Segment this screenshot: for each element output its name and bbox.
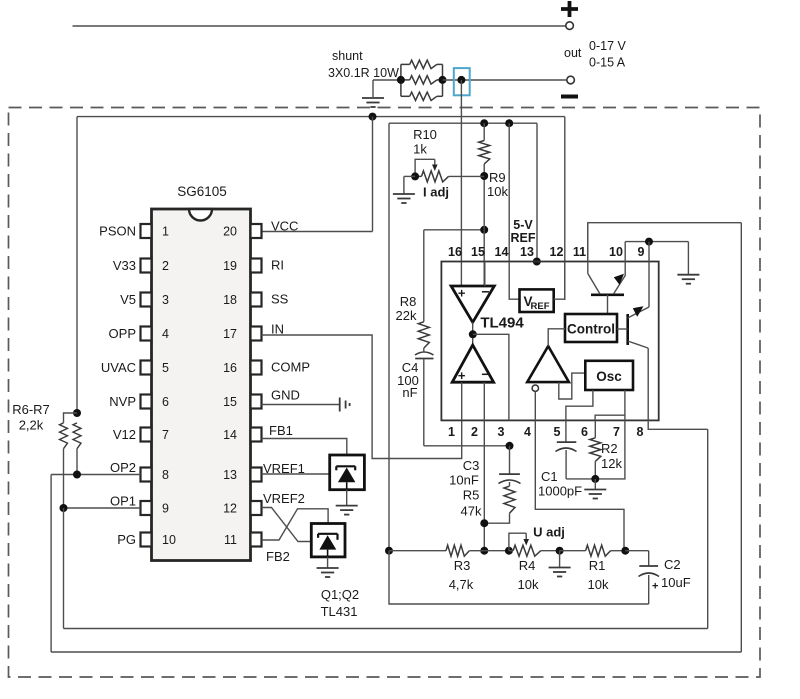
- wire comp2 plus input pin 1: [461, 382, 463, 420]
- svg-text:14: 14: [495, 245, 509, 259]
- wire pin 10 emitter up: [624, 242, 626, 276]
- node R9 bottom: [480, 172, 488, 180]
- wire PWM apex to Control: [548, 329, 565, 346]
- wire VREF1 to TL431: [262, 473, 330, 475]
- svg-text:C2: C2: [664, 557, 681, 572]
- wire OP2 net: [51, 474, 140, 476]
- ground GND pin 15 rotated: [340, 398, 350, 412]
- node shunt right: [439, 76, 447, 84]
- label R5: [463, 488, 480, 503]
- svg-text:8: 8: [637, 425, 644, 439]
- node R7 bottom OP2: [73, 471, 81, 479]
- wire comp1 minus input: [484, 262, 486, 287]
- node VCC tap: [369, 113, 377, 121]
- svg-text:R10: R10: [413, 127, 437, 142]
- ground TL431 Q2: [317, 557, 339, 577]
- svg-text:1: 1: [162, 225, 169, 239]
- node R2 bottom: [591, 475, 599, 483]
- ground oscillator: [584, 479, 606, 499]
- svg-text:shunt: shunt: [332, 49, 363, 63]
- potentiometer R4 U adj: [509, 533, 560, 556]
- wire VCC vertical to pin20: [372, 117, 374, 232]
- svg-text:5: 5: [162, 361, 169, 375]
- label 10k: [487, 184, 508, 199]
- comparator A2 bottom: [452, 345, 493, 383]
- svg-text:12: 12: [223, 502, 237, 516]
- svg-text:12k: 12k: [601, 456, 622, 471]
- svg-text:COMP: COMP: [271, 360, 310, 375]
- svg-text:2,2k: 2,2k: [19, 418, 44, 433]
- wire OP2 loop right up to TL494 pin 11 wire: [740, 223, 742, 652]
- SG6105 right pin labels: [263, 219, 310, 507]
- svg-text:11: 11: [573, 245, 586, 259]
- svg-text:R4: R4: [519, 558, 536, 573]
- capacitor C2: [639, 551, 660, 604]
- wire pin 14 to VREF box: [509, 262, 519, 300]
- op-amp U2 SG6105 body: [152, 209, 251, 561]
- svg-text:16: 16: [223, 361, 237, 375]
- label 5-V: [513, 218, 533, 232]
- block VREF: [520, 289, 554, 312]
- transistor Q2 internal: [617, 306, 649, 420]
- wire pin15 node horizontal: [424, 229, 484, 231]
- wire current sense to TL494 pin 16: [460, 80, 462, 286]
- svg-text:NVP: NVP: [109, 394, 136, 409]
- ground TL494 emitters: [677, 242, 699, 284]
- label U adj: [533, 525, 565, 540]
- label R9: [489, 170, 506, 185]
- svg-text:2: 2: [471, 425, 478, 439]
- svg-text:3: 3: [498, 425, 505, 439]
- wire C2 bottom to 5V vertical: [389, 551, 649, 604]
- svg-text:15: 15: [223, 395, 237, 409]
- wire OP2 loop bottom: [51, 651, 741, 653]
- comparator PWM: [527, 346, 569, 382]
- svg-text:7: 7: [613, 425, 620, 439]
- label C2: [664, 557, 681, 572]
- label R4: [519, 558, 536, 573]
- TL494 top pin numbers: [448, 245, 644, 259]
- wire 5V rail pin14 drop: [508, 123, 510, 261]
- wire 5V REF rail: [389, 122, 537, 124]
- resistor R5: [483, 486, 515, 523]
- svg-text:10k: 10k: [518, 577, 539, 592]
- comparator A1 top: [451, 284, 494, 323]
- wire comparator output to pin 3: [473, 334, 509, 420]
- resistor R10 potentiometer: [415, 171, 484, 182]
- wire OP1 loop left: [63, 508, 65, 629]
- label Q1;Q2: [321, 587, 359, 602]
- wire VREF box to pin 12: [554, 262, 565, 300]
- node pin 9 gnd: [645, 238, 653, 246]
- svg-text:5-V: 5-V: [513, 218, 533, 232]
- svg-text:3: 3: [162, 293, 169, 307]
- label SG6105: [177, 184, 227, 199]
- svg-text:1: 1: [448, 425, 455, 439]
- label FB2 text: [266, 549, 290, 564]
- label TL431: [321, 604, 358, 619]
- node R10 left: [411, 172, 419, 180]
- label R1: [589, 558, 606, 573]
- svg-text:OP1: OP1: [110, 494, 136, 509]
- terminal + output: [566, 22, 574, 30]
- node R6 bottom OP1: [60, 504, 68, 512]
- ground I adj: [393, 194, 415, 203]
- svg-text:VCC: VCC: [271, 219, 298, 234]
- label R10: [413, 127, 437, 142]
- node R6-R7 top: [73, 409, 81, 417]
- svg-text:Control: Control: [567, 322, 615, 337]
- svg-text:17: 17: [223, 327, 237, 341]
- capacitor C4: [415, 348, 434, 446]
- resistor shunt top: [401, 60, 443, 96]
- svg-text:4: 4: [162, 327, 169, 341]
- plus symbol: [561, 1, 578, 17]
- label 0-15 A: [589, 56, 626, 70]
- wire VREF2 crossing: [262, 508, 312, 542]
- label C1: [541, 469, 558, 484]
- svg-text:PG: PG: [117, 532, 136, 547]
- label 10k R1: [588, 577, 609, 592]
- ground R4: [549, 551, 571, 577]
- svg-text:FB2: FB2: [266, 549, 290, 564]
- svg-text:SS: SS: [271, 292, 289, 307]
- svg-text:R8: R8: [400, 294, 417, 309]
- svg-text:13: 13: [520, 245, 534, 259]
- node 5V at TL494 pin 13: [533, 258, 541, 266]
- node pin 3 junction: [506, 442, 514, 450]
- resistor shunt middle: [401, 76, 443, 84]
- svg-text:20: 20: [223, 225, 237, 239]
- svg-text:7: 7: [162, 428, 169, 442]
- current sense marker box: [454, 68, 470, 95]
- svg-text:9: 9: [638, 245, 645, 259]
- svg-text:10nF: 10nF: [449, 473, 479, 488]
- svg-text:22k: 22k: [396, 308, 417, 323]
- SG6105 left pin labels: [99, 224, 136, 548]
- wire R9 junction to TL494 pin 15: [483, 230, 485, 286]
- label 10k R4: [518, 577, 539, 592]
- svg-text:10: 10: [162, 533, 176, 547]
- svg-text:5: 5: [554, 425, 561, 439]
- svg-text:V12: V12: [113, 427, 136, 442]
- resistor R9: [479, 123, 490, 230]
- label out: [564, 46, 582, 60]
- svg-text:47k: 47k: [461, 504, 482, 519]
- node pin2 R3 junction: [480, 547, 488, 555]
- wire FB2 crossing: [262, 509, 329, 540]
- wire GND pin 15: [262, 404, 340, 406]
- svg-text:11: 11: [224, 533, 237, 547]
- svg-text:10: 10: [609, 245, 623, 259]
- wire NVP-node drop: [0, 0, 1, 1]
- svg-text:14: 14: [223, 428, 237, 442]
- wire IN to TL494 pin 1: [262, 335, 462, 459]
- svg-text:U adj: U adj: [533, 525, 565, 540]
- svg-text:C3: C3: [463, 458, 480, 473]
- svg-text:TL494: TL494: [480, 315, 524, 332]
- svg-text:0-15 A: 0-15 A: [589, 56, 626, 70]
- node R4 left: [505, 547, 513, 555]
- svg-text:3X0.1R 10W: 3X0.1R 10W: [328, 66, 399, 80]
- svg-text:I adj: I adj: [423, 185, 449, 200]
- svg-text:+: +: [652, 581, 658, 593]
- label R6-R7: [12, 402, 50, 417]
- svg-text:9: 9: [162, 502, 169, 516]
- wire OP1 loop right up to TL494 pin 8 wire: [707, 429, 709, 628]
- label 2,2k: [19, 418, 44, 433]
- svg-text:IN: IN: [271, 322, 284, 337]
- svg-text:19: 19: [223, 259, 237, 273]
- label 4,7k: [449, 577, 474, 592]
- label 12k: [601, 456, 622, 471]
- node R5 bottom pin2: [480, 519, 488, 527]
- wire 5V rail to TL494 pin 13: [536, 123, 538, 261]
- svg-text:FB1: FB1: [269, 423, 293, 438]
- node 5V rail to pin 14: [505, 119, 513, 127]
- label 1k: [413, 142, 427, 157]
- ground shunt: [362, 80, 384, 107]
- svg-text:TL431: TL431: [321, 604, 358, 619]
- svg-text:10k: 10k: [487, 184, 508, 199]
- label nF: [402, 385, 417, 400]
- label TL494: [480, 315, 524, 332]
- wire PWM input to Osc: [559, 373, 586, 399]
- node R4 right: [556, 547, 564, 555]
- svg-text:nF: nF: [402, 385, 417, 400]
- svg-text:OPP: OPP: [109, 326, 136, 341]
- diode U4 TL431 Q2: [311, 524, 345, 557]
- svg-text:1000pF: 1000pF: [538, 484, 582, 499]
- node 5V rail to R9: [480, 119, 488, 127]
- label shunt: [332, 49, 363, 63]
- label R3: [454, 558, 471, 573]
- svg-text:16: 16: [448, 245, 462, 259]
- wire R1 to C2: [625, 550, 648, 552]
- wire pin 8 external: [648, 420, 708, 429]
- svg-text:UVAC: UVAC: [101, 360, 136, 375]
- label R2: [601, 441, 618, 456]
- svg-text:2: 2: [162, 259, 169, 273]
- wire pot wiper bracket: [415, 159, 438, 176]
- wire VCC left drop to R6-R7: [76, 117, 78, 413]
- ground TL431 Q1: [336, 490, 358, 515]
- diode U3 TL431 Q1: [330, 455, 365, 490]
- resistor R7: [73, 423, 81, 475]
- svg-text:6: 6: [162, 395, 169, 409]
- wire pin 11 top: [588, 223, 742, 262]
- label R8: [400, 294, 417, 309]
- svg-text:0-17 V: 0-17 V: [589, 39, 626, 53]
- wire R3 to R4: [484, 550, 509, 552]
- wire VCC right drop to TL494 pin 12: [564, 117, 566, 300]
- terminal - output: [567, 76, 575, 84]
- SG6105 pin numbers: [162, 225, 237, 548]
- wire OP1 net: [64, 507, 141, 509]
- svg-text:VREF2: VREF2: [263, 491, 305, 506]
- svg-text:+: +: [458, 368, 466, 383]
- wire pin 2 down: [483, 420, 485, 550]
- svg-text:18: 18: [223, 293, 237, 307]
- svg-text:R1: R1: [589, 558, 606, 573]
- wire 5V REF left drop: [388, 123, 390, 550]
- dashed enclosure border: [9, 108, 761, 678]
- wire pin 4 DTC: [535, 391, 624, 550]
- wire pin 9 down to Q2 emitter: [648, 242, 650, 307]
- svg-text:−: −: [481, 366, 489, 382]
- svg-text:15: 15: [471, 245, 485, 259]
- wire shunt to - terminal: [443, 79, 567, 81]
- svg-text:10uF: 10uF: [661, 575, 691, 590]
- svg-text:GND: GND: [271, 388, 300, 403]
- svg-text:RI: RI: [271, 258, 284, 273]
- label 100: [397, 373, 419, 388]
- label 10uF: [661, 575, 691, 590]
- TL494 bottom pin numbers: [448, 425, 644, 439]
- label 10nF: [449, 473, 479, 488]
- label 0-17 V: [589, 39, 626, 53]
- wire pin 7 to C1 R2 bottoms: [566, 420, 625, 479]
- wire comp2 minus input pin 2: [483, 382, 485, 420]
- wire Osc to pins 6-7: [595, 390, 625, 420]
- SG6105 pin stubs: [141, 224, 262, 547]
- resistor R3: [389, 545, 484, 556]
- resistor R2: [590, 420, 601, 479]
- PWM inverting bubble: [532, 385, 538, 391]
- resistor R1: [560, 545, 626, 556]
- svg-text:4,7k: 4,7k: [449, 577, 474, 592]
- label FB1 text: [269, 423, 293, 438]
- wire C4 to pin3 node: [424, 445, 510, 447]
- wire OP2 loop left: [50, 475, 52, 653]
- wire positive supply rail: [73, 25, 567, 27]
- label C3: [463, 458, 480, 473]
- node pin15 junction: [480, 226, 488, 234]
- svg-text:C1: C1: [541, 469, 558, 484]
- wire OP1 loop bottom: [64, 628, 708, 630]
- svg-text:Osc: Osc: [596, 369, 622, 384]
- svg-text:8: 8: [162, 468, 169, 482]
- svg-text:SG6105: SG6105: [177, 184, 227, 199]
- svg-text:REF: REF: [531, 301, 550, 312]
- svg-text:10k: 10k: [588, 577, 609, 592]
- svg-text:R2: R2: [601, 441, 618, 456]
- resistor R6: [60, 413, 78, 508]
- svg-text:V33: V33: [113, 258, 136, 273]
- svg-text:PSON: PSON: [99, 224, 136, 239]
- label 22k: [396, 308, 417, 323]
- block Osc: [585, 361, 633, 390]
- label 3X0.1R 10W: [328, 66, 399, 80]
- wire pins 9-10 ground link: [625, 241, 688, 243]
- svg-text:R6-R7: R6-R7: [12, 402, 50, 417]
- svg-text:+: +: [458, 286, 466, 301]
- wire comp1 output: [472, 322, 474, 345]
- svg-text:−: −: [481, 284, 489, 300]
- svg-text:R5: R5: [463, 488, 480, 503]
- wire Osc to pin 5: [566, 390, 593, 420]
- op-amp U1 TL494 box: [441, 262, 658, 421]
- svg-text:13: 13: [223, 468, 237, 482]
- label 1000pF: [538, 484, 582, 499]
- transistor Q1 internal: [588, 223, 625, 314]
- wire VCC rail top: [77, 116, 565, 118]
- wire Q1 base to Control: [0, 0, 1, 1]
- svg-text:OP2: OP2: [110, 460, 136, 475]
- svg-text:Q1;Q2: Q1;Q2: [321, 587, 359, 602]
- svg-text:REF: REF: [511, 231, 536, 245]
- wire R10 to ground: [404, 176, 415, 194]
- label 47k: [461, 504, 482, 519]
- svg-text:4: 4: [524, 425, 531, 439]
- svg-text:12: 12: [550, 245, 564, 259]
- node current sense: [457, 76, 465, 84]
- node R1 right pin4: [621, 547, 629, 555]
- block Control: [565, 314, 617, 342]
- svg-text:6: 6: [581, 425, 588, 439]
- node R3 left 5V: [385, 547, 393, 555]
- capacitor C1: [556, 420, 577, 479]
- minus symbol: [561, 95, 578, 99]
- wire VCC horizontal to SG6105 pin 20: [262, 231, 373, 233]
- node shunt left: [397, 76, 405, 84]
- svg-text:R3: R3: [454, 558, 471, 573]
- label REF: [511, 231, 536, 245]
- label I adj: [423, 185, 449, 200]
- node comparator outputs: [469, 330, 477, 338]
- svg-text:out: out: [564, 46, 582, 60]
- wire shunt left to ground: [373, 79, 401, 81]
- svg-text:V5: V5: [120, 292, 136, 307]
- svg-text:R9: R9: [489, 170, 506, 185]
- resistor R8: [418, 230, 429, 348]
- wire FB1: [262, 439, 347, 467]
- label C4: [402, 360, 419, 375]
- svg-text:1k: 1k: [413, 142, 427, 157]
- resistor shunt bottom: [401, 92, 443, 100]
- capacitor C3: [499, 446, 521, 486]
